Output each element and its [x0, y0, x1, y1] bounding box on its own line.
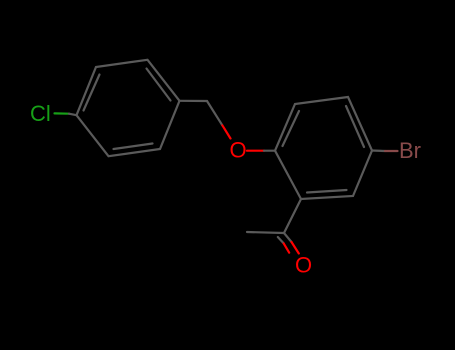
- benzene ring 1 (4-chlorophenyl) outline: [77, 60, 180, 156]
- bond ring2-C(=O): [284, 199, 301, 233]
- C=O double bond second line gray half: [278, 237, 284, 243]
- svg-text:O: O: [295, 252, 312, 277]
- bond O-ring2 gray half: [264, 150, 275, 152]
- svg-text:Br: Br: [399, 138, 421, 163]
- benzene ring 2 (bromophenyl) outline: [275, 97, 372, 199]
- bond ring1-CH2: [180, 100, 208, 102]
- bond ring2-Br gray half: [372, 149, 385, 152]
- bond CH2-O gray half: [207, 101, 222, 125]
- bond Cl-C1' gray half: [69, 114, 77, 116]
- ring 1 inner double bond A1F1: [84, 75, 100, 111]
- bond Cl-C1' green half: [55, 112, 70, 114]
- ring 2 inner double bond A2B2: [283, 111, 300, 146]
- bond ring2-Br maroon half: [385, 150, 398, 152]
- svg-text:O: O: [230, 137, 247, 162]
- bond C-CH3: [247, 232, 284, 233]
- ring 2 inner double bond E2F2: [307, 190, 347, 193]
- bond O-ring2 red half: [247, 150, 264, 152]
- ring 1 inner double bond E1D1: [147, 69, 171, 101]
- C=O double bond main line gray half: [284, 233, 292, 242]
- bond CH2-O red half: [222, 125, 230, 138]
- C=O double bond second line red half: [284, 243, 290, 252]
- svg-text:Cl: Cl: [30, 101, 51, 126]
- ring 2 inner double bond C2D2: [346, 106, 364, 147]
- ring 1 inner double bond C1B1: [114, 144, 153, 150]
- C=O double bond main line red half: [292, 242, 299, 254]
